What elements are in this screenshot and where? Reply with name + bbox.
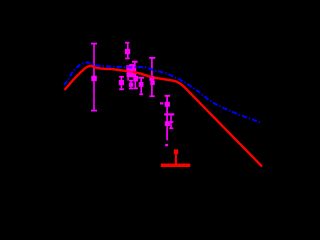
red solid model curve bbox=[65, 66, 263, 167]
data point P5 (x=135.3, long bar with top cap T) bbox=[132, 62, 138, 89]
red upper-limit symbol bbox=[161, 149, 191, 165]
data point P4 (x=121.5) bbox=[119, 77, 124, 90]
blend overlay where red curve crosses P7 squares bbox=[150, 77, 155, 79]
blue dash-dot model curve bbox=[64, 62, 261, 122]
data point P1 (x=94) bbox=[91, 44, 97, 111]
blend overlay where blue curve crosses cluster blob bbox=[127, 66, 136, 68]
group Q main bar (x=167.2) with top cap and squares bbox=[165, 96, 171, 147]
small tick marker left of group Q (x=161.5) bbox=[160, 102, 163, 104]
data point P9 (x=141) bbox=[138, 78, 144, 95]
data point P12 (x=131) bbox=[128, 77, 133, 89]
data point P2 (x=127.8) bbox=[125, 43, 130, 59]
group Q wide horizontal bar at y=114.6 bbox=[164, 113, 174, 115]
group Q right bar (x=171.3) with two caps bbox=[169, 115, 173, 129]
blend overlay where red curve crosses cluster blob bbox=[127, 70, 133, 73]
dense cluster blob of overlapping points bbox=[126, 64, 135, 77]
data point P7 (x=152, tall bar, two squares) bbox=[149, 58, 155, 97]
